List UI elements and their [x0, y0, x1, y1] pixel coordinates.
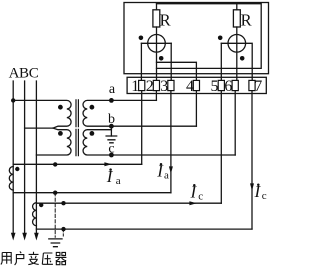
svg-text:c: c	[198, 191, 203, 203]
svg-text:3: 3	[160, 78, 168, 95]
svg-text:1: 1	[131, 78, 139, 95]
svg-text:C: C	[29, 66, 39, 82]
svg-text:b: b	[108, 112, 115, 127]
svg-text:5: 5	[211, 78, 219, 95]
svg-text:2: 2	[146, 78, 154, 95]
svg-text:7: 7	[254, 78, 262, 95]
svg-text:R: R	[241, 11, 252, 30]
svg-text:B: B	[19, 66, 29, 82]
svg-text:R: R	[160, 11, 171, 30]
svg-text:a: a	[109, 82, 116, 97]
svg-text:a: a	[164, 170, 169, 182]
svg-text:4: 4	[186, 78, 194, 95]
svg-text:a: a	[116, 175, 121, 187]
svg-text:c: c	[108, 141, 114, 156]
svg-text:c: c	[262, 190, 267, 202]
svg-text:6: 6	[224, 78, 232, 95]
